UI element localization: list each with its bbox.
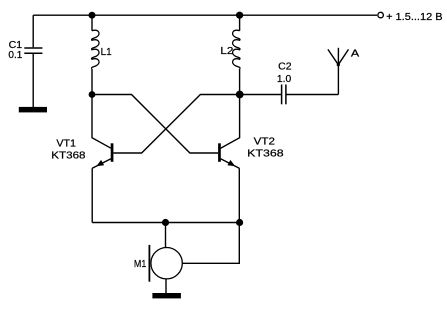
node top-left junction (89, 12, 96, 19)
antenna A (328, 48, 349, 95)
svg-text:1.0: 1.0 (277, 74, 292, 85)
node collector VT2 (236, 91, 244, 99)
svg-text:KT368: KT368 (51, 151, 86, 162)
inductor L2 (233, 15, 240, 94)
wire M1 top lead (165, 223, 167, 248)
transistor VT1 (92, 143, 113, 168)
transistor VT2 (218, 143, 239, 168)
node top-right junction (236, 12, 243, 19)
wire cross-coupling N1 to VT2 base (92, 95, 218, 154)
svg-text:C2: C2 (278, 62, 292, 73)
svg-text:0.1: 0.1 (8, 50, 22, 61)
svg-text:M1: M1 (134, 259, 147, 270)
capacitor C1 (24, 15, 42, 107)
wire bottom rail (92, 222, 239, 224)
svg-text:L1: L1 (101, 47, 112, 58)
wire M1 right lead to bottom rail (182, 223, 239, 264)
node bottom mic junction (162, 219, 169, 226)
terminal +V open circle (378, 12, 384, 18)
svg-text:VT2: VT2 (254, 137, 276, 148)
svg-text:VT1: VT1 (56, 139, 76, 150)
wire collector lead VT2 (221, 95, 240, 149)
microphone M1 (149, 245, 182, 282)
wire cross-coupling N2 to VT1 base (113, 95, 239, 154)
svg-text:KT368: KT368 (247, 149, 284, 160)
capacitor C2 (240, 85, 339, 105)
wire collector lead VT1 (92, 95, 111, 149)
svg-text:+ 1.5...12 В: + 1.5...12 В (386, 12, 443, 23)
wire emitter VT1 down (91, 168, 93, 222)
wire M1 ground lead (165, 279, 167, 293)
inductor L1 (92, 15, 99, 94)
ground left (19, 107, 47, 113)
node bottom right junction (236, 219, 243, 226)
node collector VT1 (89, 91, 96, 98)
wire top supply rail (33, 14, 377, 16)
svg-text:L2: L2 (220, 46, 234, 57)
ground bottom (152, 293, 181, 298)
wire emitter VT2 down (238, 168, 240, 222)
svg-text:A: A (351, 49, 360, 60)
